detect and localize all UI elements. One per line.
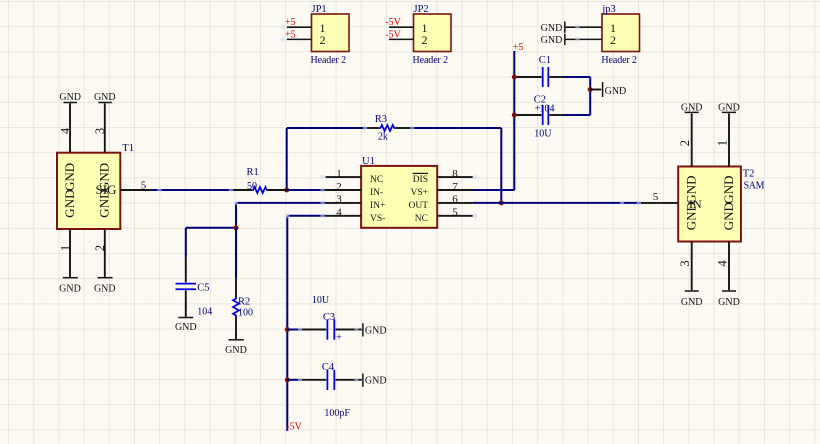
- connector jp3: [602, 14, 640, 52]
- U1 pin 4 VS-: [287, 207, 385, 224]
- wire +5 to U1 VS+: [473, 189, 515, 191]
- power port GND right of C1/C2: [590, 82, 626, 97]
- op-amp U1: [361, 166, 437, 228]
- wire end grid markers: [157, 25, 641, 382]
- wire IN+ node down: [235, 203, 237, 228]
- R1 designator: [247, 167, 259, 178]
- C3 value 10U: [312, 295, 330, 306]
- transformer T1: [57, 153, 120, 229]
- power port GND on T1 pin 3: [94, 92, 116, 103]
- power port GND on jp3 pin 1: [541, 22, 565, 35]
- svg-text:GND: GND: [684, 176, 699, 204]
- junction at C1 / +5 rail: [512, 75, 517, 80]
- svg-text:2: 2: [93, 245, 107, 251]
- U1 pin 6 OUT: [408, 194, 472, 211]
- svg-text:-5V: -5V: [286, 422, 302, 433]
- capacitor C5: [176, 228, 197, 317]
- R2 designator: [238, 296, 250, 307]
- power port GND below C5: [175, 318, 197, 334]
- wire T1 pin5 to R1: [152, 189, 234, 191]
- wire +5 vertical rail: [513, 51, 515, 190]
- svg-text:C5: C5: [197, 282, 209, 293]
- svg-text:2: 2: [610, 33, 616, 47]
- svg-text:GND: GND: [721, 176, 736, 204]
- svg-text:C1: C1: [539, 55, 551, 66]
- resistor R3: [287, 125, 502, 131]
- power port GND on T2 pin 4: [718, 291, 740, 308]
- R3 designator: [375, 114, 387, 125]
- T2 value SAM: [744, 181, 765, 192]
- net label -5V: [286, 422, 302, 433]
- svg-text:NC: NC: [415, 214, 428, 224]
- svg-text:IN-: IN-: [370, 188, 383, 198]
- junction C3 tap: [285, 327, 290, 332]
- T1 pin 4 (top left): [59, 103, 77, 191]
- T2 designator: [743, 169, 755, 180]
- svg-text:10U: 10U: [534, 128, 552, 139]
- U1 pin 8 DIS: [413, 168, 473, 185]
- svg-text:SIG: SIG: [96, 182, 117, 197]
- svg-text:GND: GND: [681, 297, 703, 308]
- svg-text:VS-: VS-: [370, 214, 385, 224]
- junction at IN+ / C5 / R2: [234, 225, 239, 230]
- junction feedback to OUT: [499, 200, 504, 205]
- C3 designator: [323, 312, 335, 323]
- svg-text:NC: NC: [370, 175, 383, 185]
- svg-text:JP2: JP2: [414, 4, 429, 15]
- svg-text:GND: GND: [718, 102, 740, 113]
- C4 value 100pF: [324, 408, 350, 419]
- C1 designator: [539, 55, 551, 66]
- power port GND right of C3: [363, 323, 387, 336]
- svg-text:-5V: -5V: [385, 17, 401, 28]
- JP2 value Header 2: [413, 55, 449, 66]
- svg-text:104: 104: [197, 306, 212, 317]
- svg-text:GND: GND: [365, 325, 387, 336]
- svg-text:1: 1: [715, 140, 729, 146]
- wire feedback right vertical: [500, 128, 502, 203]
- jp3 value Header 2: [601, 55, 637, 66]
- net label -5V on JP2 pin 2: [385, 29, 401, 40]
- svg-text:R2: R2: [238, 296, 250, 307]
- T2 pin 3 (bottom left): [678, 202, 699, 290]
- jp3 pin 1: [565, 21, 616, 35]
- U1 pin 2 IN-: [287, 181, 384, 198]
- svg-text:GND: GND: [62, 190, 77, 218]
- U1 pin 7 VS+: [410, 181, 472, 198]
- C2 value 10U: [534, 128, 552, 139]
- svg-text:GND: GND: [681, 102, 703, 113]
- power port GND on T2 pin 2: [681, 102, 703, 113]
- svg-text:T2: T2: [743, 169, 755, 180]
- U1 pin 3 IN+: [236, 194, 385, 211]
- svg-text:2: 2: [320, 33, 326, 47]
- connector JP2: [414, 14, 452, 52]
- R1 value 50: [247, 181, 257, 192]
- svg-text:GND: GND: [541, 35, 563, 46]
- C4 designator: [322, 362, 335, 373]
- svg-text:3: 3: [678, 260, 692, 266]
- C5 value 104: [197, 306, 212, 317]
- svg-text:T1: T1: [122, 143, 134, 154]
- junction C4 tap: [285, 377, 290, 382]
- svg-text:Header 2: Header 2: [413, 55, 449, 66]
- svg-text:3: 3: [93, 128, 107, 134]
- svg-text:GND: GND: [541, 23, 563, 34]
- R2 value 100: [238, 308, 253, 319]
- svg-text:GND: GND: [225, 345, 247, 356]
- svg-text:+5: +5: [285, 17, 296, 28]
- svg-text:OUT: OUT: [408, 201, 428, 211]
- U1 pin 1 NC: [326, 168, 384, 185]
- power port GND on T2 pin 1: [718, 102, 740, 113]
- svg-text:VS+: VS+: [410, 188, 428, 198]
- resistor R2: [233, 228, 239, 339]
- svg-text:4: 4: [715, 260, 729, 267]
- U1 designator: [362, 156, 375, 167]
- svg-text:GND: GND: [94, 284, 116, 295]
- power port GND below R2: [225, 340, 247, 356]
- svg-text:GND: GND: [59, 92, 81, 103]
- JP2 designator: [414, 4, 429, 15]
- svg-text:2: 2: [678, 140, 692, 146]
- svg-text:50: 50: [247, 181, 257, 192]
- svg-text:5: 5: [452, 207, 458, 219]
- R3 value 2k: [378, 132, 388, 143]
- svg-text:+5: +5: [285, 29, 296, 40]
- transformer T2: [678, 167, 741, 242]
- svg-text:JP1: JP1: [312, 4, 327, 15]
- junction at GND tap: [588, 87, 593, 92]
- svg-text:4: 4: [59, 127, 73, 134]
- power port GND on jp3 pin 2: [541, 34, 565, 47]
- power port GND on T1 pin 2: [94, 278, 116, 295]
- T1 pin 3 (top right): [93, 103, 112, 191]
- svg-text:10U: 10U: [312, 295, 330, 306]
- svg-text:SAM: SAM: [744, 181, 765, 192]
- JP1 designator: [312, 4, 327, 15]
- svg-text:5: 5: [653, 191, 659, 203]
- C2 designator: [534, 94, 546, 105]
- C5 designator: [197, 282, 209, 293]
- svg-text:3: 3: [336, 194, 342, 206]
- connector JP1: [312, 14, 350, 52]
- T2 pin 4 (bottom right): [715, 202, 736, 290]
- svg-text:1: 1: [336, 168, 342, 180]
- svg-text:7: 7: [452, 181, 458, 193]
- svg-text:C2: C2: [534, 94, 546, 105]
- power port GND on T1 pin 4: [59, 92, 81, 103]
- svg-text:C4: C4: [322, 362, 335, 373]
- capacitor C3 polarized: [287, 320, 361, 344]
- svg-text:2: 2: [422, 33, 428, 47]
- capacitor C2 polarized: [516, 103, 590, 125]
- svg-text:8: 8: [452, 168, 458, 180]
- power port GND on T1 pin 1: [59, 278, 81, 295]
- JP1 value Header 2: [311, 55, 347, 66]
- T1 designator: [122, 143, 134, 154]
- T1 pin 2 (bottom right): [93, 190, 112, 277]
- wire OUT to T2: [473, 202, 641, 204]
- jp3 designator: [601, 4, 615, 15]
- svg-text:2k: 2k: [378, 132, 388, 143]
- wire right side C1-C2 vertical: [589, 77, 591, 115]
- wire -5V rail vertical: [286, 216, 288, 431]
- JP2 pin 2: [389, 33, 428, 47]
- svg-text:Header 2: Header 2: [311, 55, 347, 66]
- T2 pin 2 (top left): [678, 114, 699, 204]
- svg-text:5: 5: [141, 179, 147, 191]
- T2 pin 1 (top right): [715, 114, 736, 204]
- junction feedback to IN-: [284, 188, 289, 193]
- power port GND right of C4: [363, 374, 387, 387]
- svg-text:GND: GND: [718, 297, 740, 308]
- svg-text:GND: GND: [175, 322, 197, 333]
- power port GND on T2 pin 3: [681, 291, 703, 308]
- svg-text:U1: U1: [362, 156, 375, 167]
- net label +5 on rail: [513, 42, 524, 53]
- svg-text:C3: C3: [323, 312, 335, 323]
- wire junction to C5: [186, 227, 236, 229]
- svg-text:6: 6: [452, 194, 458, 206]
- svg-text:2: 2: [336, 181, 342, 193]
- svg-text:jp3: jp3: [601, 4, 615, 15]
- net label +5 on JP1 pin 2: [285, 29, 296, 40]
- T2 pin 5 (left, IN): [641, 191, 702, 211]
- net label -5V on JP2 pin 1: [385, 17, 401, 28]
- svg-text:1: 1: [59, 245, 73, 251]
- C1 value 104: [540, 104, 555, 115]
- svg-text:GND: GND: [605, 86, 627, 97]
- capacitor C1: [516, 67, 590, 87]
- svg-text:GND: GND: [721, 202, 736, 230]
- JP2 pin 1: [389, 21, 428, 35]
- net label +5 on JP1 pin 1: [285, 17, 296, 28]
- JP1 pin 2: [287, 33, 326, 47]
- svg-text:-5V: -5V: [385, 29, 401, 40]
- T1 pin 5 (right, SIG): [96, 179, 152, 197]
- T1 pin 1 (bottom left): [59, 190, 77, 277]
- svg-text:4: 4: [336, 207, 342, 219]
- wire feedback left vertical: [286, 128, 288, 190]
- svg-text:GND: GND: [62, 163, 77, 191]
- svg-text:GND: GND: [94, 92, 116, 103]
- svg-text:DIS: DIS: [413, 175, 428, 185]
- svg-text:+: +: [336, 332, 342, 343]
- JP1 pin 1: [287, 21, 326, 35]
- svg-text:R3: R3: [375, 114, 387, 125]
- svg-text:GND: GND: [365, 376, 387, 387]
- svg-text:R1: R1: [247, 167, 259, 178]
- svg-text:GND: GND: [59, 284, 81, 295]
- resistor R1: [234, 187, 287, 193]
- capacitor C4: [287, 370, 361, 390]
- svg-text:GND: GND: [684, 202, 699, 230]
- svg-text:100: 100: [238, 308, 253, 319]
- svg-text:100pF: 100pF: [324, 408, 350, 419]
- jp3 pin 2: [565, 33, 616, 47]
- svg-text:Header 2: Header 2: [601, 55, 637, 66]
- U1 pin 5 NC: [415, 207, 473, 224]
- svg-text:IN+: IN+: [370, 201, 385, 211]
- junction at C2 / +5 rail: [512, 113, 517, 118]
